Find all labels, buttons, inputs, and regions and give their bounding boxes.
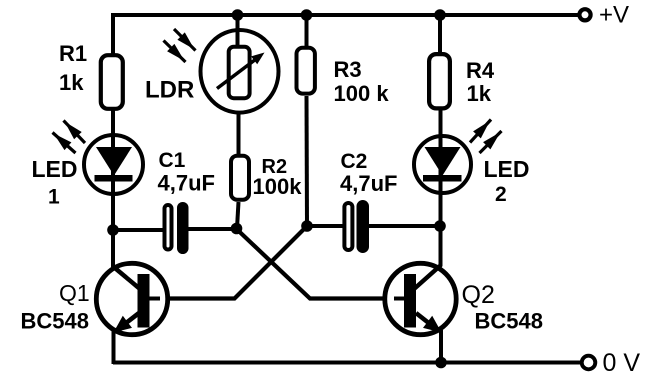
resistor R2 [231, 156, 249, 200]
wire R3 top lead [305, 13, 309, 47]
junction dot R3 top [301, 9, 313, 21]
svg-text:4,7uF: 4,7uF [340, 171, 397, 196]
wire R1 to LED1 and through LED1 to node [111, 108, 115, 230]
svg-text:R3: R3 [334, 57, 362, 82]
junction dot Q2 emitter on rail [435, 357, 447, 369]
wire R4 through LED2 down to Q2 collector [439, 108, 443, 266]
svg-text:LDR: LDR [145, 77, 194, 104]
svg-text:100k: 100k [253, 174, 303, 199]
wire C2 to node C [369, 224, 440, 228]
svg-text:2: 2 [495, 183, 507, 206]
wire R3 bottom lead [305, 96, 310, 226]
wire Q1 emitter to 0V rail [112, 330, 116, 364]
wire node B to C2 [307, 224, 344, 228]
capacitor C1 [165, 202, 189, 254]
svg-text:4,7uF: 4,7uF [158, 171, 215, 196]
node A (C1/R2/cross wire) [231, 223, 243, 235]
svg-text:C2: C2 [341, 150, 368, 173]
wire R2 bottom lead [237, 202, 239, 228]
wire bottom rail 0V [113, 361, 582, 365]
wire Q2 emitter to 0V rail [439, 330, 443, 364]
svg-text:1k: 1k [59, 70, 84, 95]
cross wire node A to Q2 base [236, 229, 405, 299]
svg-text:R4: R4 [466, 58, 495, 83]
LED D2 [414, 136, 471, 193]
node C (C2/LED2/Q2 collector) [434, 220, 446, 232]
resistor R4 [429, 54, 450, 108]
LED2 light arrow lower [480, 131, 502, 153]
svg-text:Q2: Q2 [462, 281, 495, 309]
transistor Q2 [385, 262, 456, 335]
svg-text:100 k: 100 k [334, 81, 390, 106]
junction dot LDR top [232, 9, 244, 21]
svg-text:LED: LED [32, 156, 78, 182]
wire node to C1 [113, 228, 164, 232]
terminal 0V [582, 356, 596, 370]
node B (R3/C2/cross wire) [301, 220, 313, 232]
resistor R1 [101, 55, 123, 109]
capacitor C2 [344, 200, 369, 253]
svg-text:0 V: 0 V [603, 349, 641, 377]
svg-text:1k: 1k [467, 81, 492, 106]
LDR light arrow lower [164, 41, 186, 63]
node left (R1/LED1/C1/Q1 collector) [107, 224, 119, 236]
svg-text:R1: R1 [59, 41, 87, 66]
wire C1 to node A [188, 227, 237, 231]
wire top rail +V [113, 13, 579, 17]
resistor R3 [297, 48, 315, 94]
wire R4 top lead [438, 13, 442, 53]
svg-text:BC548: BC548 [475, 309, 543, 334]
junction dot R4 top [434, 9, 446, 21]
LDR light arrow upper [174, 29, 196, 51]
svg-text:C1: C1 [159, 149, 186, 172]
LED2 light arrow upper [470, 120, 491, 143]
svg-text:BC548: BC548 [21, 309, 89, 334]
transistor Q1 [96, 230, 167, 335]
LED1 light arrow lower [53, 133, 76, 154]
svg-text:LED: LED [484, 156, 530, 182]
wire R1 top lead [111, 13, 115, 56]
svg-text:Q1: Q1 [59, 280, 90, 306]
terminal +V [579, 9, 590, 20]
wire LDR to R2 [237, 112, 241, 155]
cross wire node B to Q1 base [148, 227, 307, 299]
svg-text:+V: +V [599, 2, 629, 29]
svg-text:1: 1 [48, 186, 60, 209]
LED D1 [84, 135, 143, 194]
LED1 light arrow upper [64, 121, 86, 144]
LDR photoresistor [201, 13, 279, 113]
